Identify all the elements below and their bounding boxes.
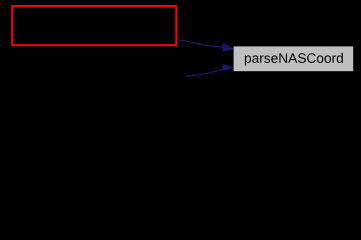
node parseNASCoord xyxy=(234,46,354,71)
node: caller (red truncated node, empty label) xyxy=(12,6,176,45)
arrowhead (lower) xyxy=(223,64,234,70)
arrowhead (upper) xyxy=(223,43,234,51)
wire: lower edge spline xyxy=(186,69,223,76)
edge: lower caller -> parseNASCoord (lower edge) xyxy=(186,64,234,76)
wire: upper edge spline xyxy=(178,40,223,48)
edge: caller -> parseNASCoord (upper edge) xyxy=(178,40,234,51)
label parseNASCoord xyxy=(245,53,343,66)
